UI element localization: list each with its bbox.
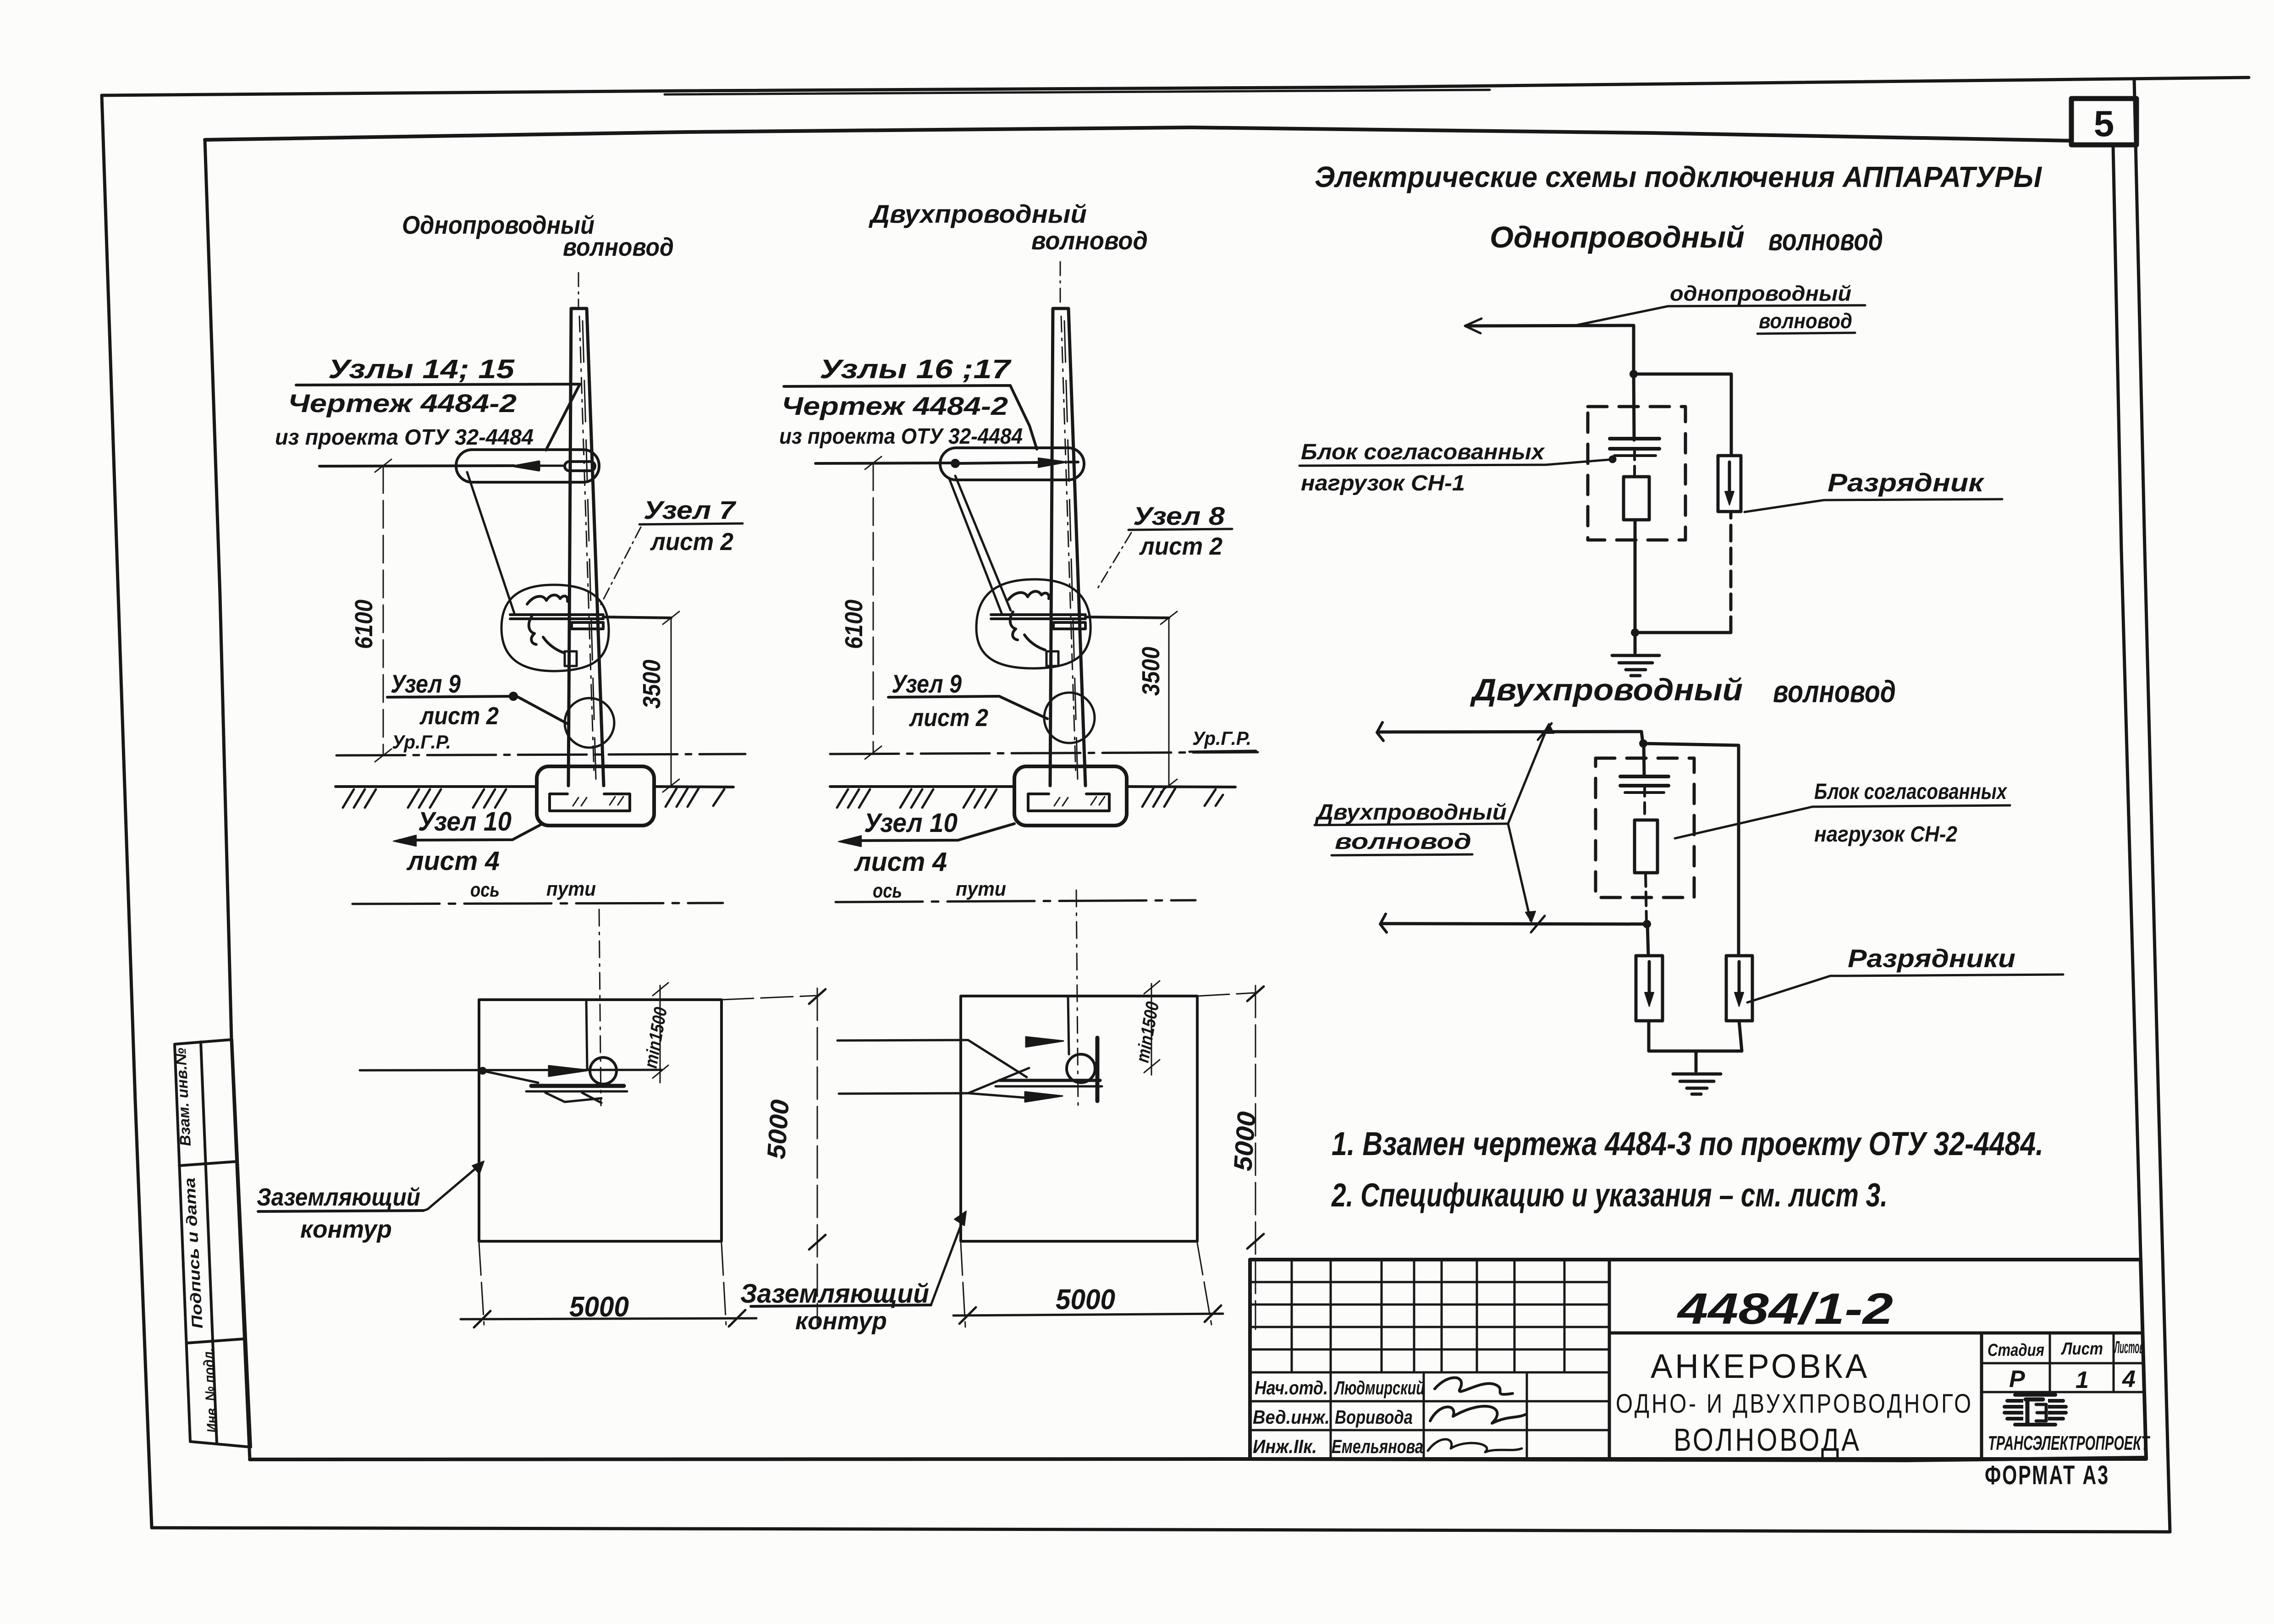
stage header row lines bbox=[1982, 1333, 2144, 1392]
ground hatching right bbox=[837, 788, 1223, 808]
svg-text:нагрузок СН-1: нагрузок СН-1 bbox=[1301, 471, 1465, 495]
svg-text:лист 2: лист 2 bbox=[650, 528, 733, 556]
sheet number box bbox=[2071, 99, 2136, 145]
svg-text:2. Спецификацию и указания – с: 2. Спецификацию и указания – см. лист 3. bbox=[1331, 1177, 1888, 1214]
grounding contour square left bbox=[479, 1000, 721, 1241]
lead to capacitor schem1 bbox=[1634, 374, 1634, 440]
node 10 label bbox=[406, 807, 512, 876]
arrester FV2 bbox=[1636, 956, 1663, 1021]
grounding contour label underline right bbox=[751, 1305, 931, 1306]
svg-text:5000: 5000 bbox=[569, 1291, 629, 1323]
anchor wire W2 bbox=[815, 463, 954, 463]
node label Uzly 14 15 bbox=[275, 354, 534, 450]
wire top end hook bbox=[1377, 722, 1383, 741]
dimension 6100 line right bbox=[865, 457, 881, 759]
node junction top schem1 bbox=[1630, 370, 1638, 378]
heading dvukhprovodny volnovod schem2 bbox=[1470, 672, 1896, 709]
title block main divider bbox=[1608, 1260, 1611, 1459]
label wire V leader bbox=[1508, 723, 1554, 922]
svg-text:Разрядник: Разрядник bbox=[1828, 468, 1985, 497]
label wire underline schem2 bbox=[1315, 824, 1508, 855]
svg-text:ТРАНСЭЛЕКТРОПРОЕКТ: ТРАНСЭЛЕКТРОПРОЕКТ bbox=[1988, 1432, 2150, 1454]
label razryadniki bbox=[1848, 944, 2015, 973]
svg-text:Чертеж 4484-2: Чертеж 4484-2 bbox=[782, 391, 1008, 420]
lead to capacitor schem2 bbox=[1644, 743, 1644, 776]
svg-text:3500: 3500 bbox=[1137, 647, 1165, 696]
svg-text:Блок согласованных: Блок согласованных bbox=[1814, 780, 2008, 804]
node junction bottom schem1 bbox=[1631, 628, 1639, 637]
svg-text:Стадия: Стадия bbox=[1988, 1341, 2044, 1360]
right elevation title Dvukhprovodny volnovod bbox=[869, 199, 1148, 255]
signature grid verticals bbox=[1292, 1260, 1564, 1459]
svg-text:волновод: волновод bbox=[563, 232, 674, 261]
top bus schem2 bbox=[1643, 743, 1739, 956]
left elevation title Odnoprovodny volnovod bbox=[402, 210, 674, 261]
svg-text:5000: 5000 bbox=[1056, 1284, 1115, 1316]
svg-text:Электрические схемы подключе: Электрические схемы подключения АППАРАТУ… bbox=[1315, 160, 2043, 193]
stay wire S1 bbox=[467, 472, 514, 613]
signature row ved inzh bbox=[1253, 1406, 1413, 1428]
anchor oval assembly bbox=[456, 450, 599, 482]
dimension 5000 vertical left ticks bbox=[809, 989, 826, 1250]
node 9 circle bbox=[565, 698, 614, 748]
level label underline right bbox=[1189, 751, 1256, 752]
signature squiggle 3 bbox=[1428, 1439, 1522, 1452]
svg-text:Ур.Г.Р.: Ур.Г.Р. bbox=[1192, 727, 1251, 749]
min1500 text right bbox=[1133, 1000, 1163, 1064]
node junction bottom schem2 bbox=[1643, 920, 1651, 928]
svg-text:ВОЛНОВОДА: ВОЛНОВОДА bbox=[1674, 1422, 1861, 1458]
signature squiggle 2 bbox=[1430, 1406, 1526, 1423]
svg-text:Людмирский: Людмирский bbox=[1334, 1377, 1425, 1398]
svg-text:волновод: волновод bbox=[1759, 309, 1852, 333]
foundation inner box bbox=[550, 794, 630, 811]
signature grid horizontals bbox=[1250, 1282, 1609, 1430]
dimension 5000 bottom text right bbox=[1056, 1284, 1115, 1316]
label razryadnik underline bbox=[1824, 499, 2002, 500]
document number 4484/1-2 bbox=[1677, 1284, 1893, 1333]
sheet outer border bottom edge bbox=[152, 1528, 2170, 1532]
square dimension extensions left bbox=[479, 988, 817, 1326]
ground hatching left bbox=[343, 788, 724, 808]
svg-text:5000: 5000 bbox=[761, 1099, 794, 1160]
stamp label Podpis i data bbox=[181, 1177, 206, 1329]
svg-text:Лист: Лист bbox=[2060, 1339, 2103, 1359]
drawing frame right edge bbox=[2113, 146, 2146, 1458]
svg-text:лист 2: лист 2 bbox=[419, 702, 499, 730]
anchor rod arrow bbox=[514, 462, 565, 470]
node label underline and flag line bbox=[296, 384, 580, 450]
capacitor C2 bbox=[1620, 776, 1668, 793]
pole circle plan left bbox=[590, 1057, 617, 1084]
label block CH-1 underline bbox=[1299, 465, 1546, 466]
lead to arrester1 bbox=[1647, 924, 1648, 956]
label block CH-2 leader bbox=[1675, 807, 1812, 838]
svg-text:Двухпроводный: Двухпроводный bbox=[1470, 672, 1743, 707]
svg-text:1. Взамен чертежа 4484-3 по п: 1. Взамен чертежа 4484-3 по проекту ОТУ … bbox=[1332, 1126, 2043, 1162]
signature row inzh IIk bbox=[1253, 1436, 1423, 1457]
wire bottom end hook bbox=[1380, 914, 1387, 932]
stage header labels bbox=[1988, 1338, 2144, 1360]
ground line right bbox=[830, 787, 1235, 787]
capacitor C1 bbox=[1610, 439, 1659, 456]
node 8 label bbox=[1133, 501, 1225, 560]
crossarm right mast bbox=[991, 615, 1169, 619]
node 7 leader bbox=[600, 527, 641, 605]
signature row nach otd bbox=[1255, 1377, 1425, 1398]
matched load block CH-1 dashed box bbox=[1588, 407, 1685, 540]
svg-text:Узел 8: Узел 8 bbox=[1133, 501, 1225, 530]
svg-text:Однопроводный: Однопроводный bbox=[1490, 220, 1745, 254]
label block CH-1 bbox=[1301, 440, 1545, 495]
dimension 6100 text bbox=[350, 600, 378, 649]
organization logo bbox=[2004, 1395, 2066, 1425]
label dvukhprovodny volnovod wire bbox=[1315, 800, 1507, 854]
svg-text:нагрузок СН-2: нагрузок СН-2 bbox=[1814, 822, 1957, 847]
stamp label Inv no podl bbox=[199, 1348, 221, 1433]
svg-text:Двухпроводный: Двухпроводный bbox=[1315, 800, 1507, 825]
node junction top schem2 bbox=[1639, 739, 1647, 748]
note 1 bbox=[1332, 1126, 2043, 1162]
node 9 circle right bbox=[1044, 693, 1095, 743]
matched load block CH-2 dashed box bbox=[1596, 758, 1694, 897]
anchor arrow plan left bbox=[549, 1066, 589, 1076]
foundation F1 bbox=[537, 766, 654, 826]
mast M2 centerline bbox=[1060, 262, 1076, 775]
svg-text:лист 4: лист 4 bbox=[406, 846, 500, 876]
dimension 5000 bottom line left bbox=[461, 1310, 756, 1327]
sheet outer border right edge bbox=[2134, 79, 2170, 1532]
svg-text:волновод: волновод bbox=[1768, 223, 1883, 257]
wire end arrow schem1 bbox=[1465, 319, 1481, 333]
heading odnoprovodny volnovod schem1 bbox=[1490, 220, 1883, 257]
node 9 leader bbox=[517, 696, 568, 724]
format A3 note bbox=[1985, 1460, 2109, 1490]
mast M2 body bbox=[1050, 308, 1085, 786]
arrester FV3 bbox=[1726, 956, 1752, 1021]
drawing frame left edge bbox=[205, 140, 250, 1459]
line under document number bbox=[1609, 1332, 2142, 1335]
bottom bus schem2 bbox=[1649, 1021, 1742, 1051]
svg-text:6100: 6100 bbox=[840, 600, 868, 649]
svg-text:Узел 10: Узел 10 bbox=[864, 808, 958, 838]
pole centerline plan left bbox=[599, 909, 601, 1106]
node 9 label right bbox=[892, 669, 988, 732]
node 9 label underline right bbox=[888, 696, 999, 697]
arrester FV1 bbox=[1718, 456, 1741, 512]
dimension 3500 line bbox=[663, 611, 679, 792]
crossarm bracket bbox=[572, 622, 603, 629]
dimension 5000 vertical text right bbox=[1228, 1111, 1261, 1172]
foundation F2 bbox=[1014, 766, 1127, 826]
anchor rod with right arrow bbox=[952, 458, 1078, 468]
svg-text:5000: 5000 bbox=[1228, 1111, 1261, 1172]
svg-text:однопроводный: однопроводный bbox=[1670, 281, 1851, 305]
note 2 bbox=[1331, 1177, 1888, 1214]
node 7 label underline bbox=[639, 523, 743, 524]
svg-text:контур: контур bbox=[795, 1307, 887, 1335]
svg-text:Разрядники: Разрядники bbox=[1848, 944, 2015, 973]
dimension 5000 bottom text left bbox=[569, 1291, 629, 1323]
square dimension extensions right bbox=[961, 985, 1255, 1329]
waveguide wire schem1 bbox=[1466, 325, 1634, 374]
plan diagonals right bbox=[968, 1040, 1029, 1098]
grounding contour square right bbox=[961, 996, 1197, 1241]
dimension 3500 line right bbox=[1161, 611, 1177, 792]
stamp label Vzam inv no bbox=[172, 1047, 194, 1147]
waveguide wire bottom schem2 bbox=[1382, 924, 1647, 924]
svg-text:из проекта ОТУ 32-4484: из проекта ОТУ 32-4484 bbox=[779, 424, 1023, 449]
svg-text:пути: пути bbox=[956, 878, 1006, 900]
grounding contour label underline left bbox=[258, 1211, 424, 1211]
ground line left bbox=[336, 787, 733, 787]
track axis line left bbox=[352, 903, 723, 904]
drawing frame bottom edge bbox=[250, 1458, 2146, 1460]
pole circle plan right bbox=[1067, 1054, 1095, 1083]
label razryadniki underline bbox=[1845, 974, 2063, 976]
svg-text:Узлы 14; 15: Узлы 14; 15 bbox=[328, 354, 515, 384]
svg-text:лист 2: лист 2 bbox=[1139, 533, 1222, 560]
ground symbol schem2 bbox=[1673, 1051, 1721, 1094]
label razryadniki leader bbox=[1747, 976, 1845, 1002]
label razryadnik bbox=[1828, 468, 1985, 497]
svg-text:ось: ось bbox=[873, 880, 902, 902]
svg-text:6100: 6100 bbox=[350, 600, 378, 649]
top bus schem1 bbox=[1634, 374, 1731, 457]
track axis line right bbox=[836, 900, 1195, 902]
capacitor to resistor lead bbox=[1633, 449, 1636, 477]
min1500 dimension left bbox=[653, 983, 668, 1083]
node 9 leader right bbox=[999, 696, 1047, 719]
svg-text:3500: 3500 bbox=[638, 660, 666, 709]
crossarm bars plan left bbox=[531, 1084, 624, 1088]
svg-text:Узел 7: Узел 7 bbox=[644, 495, 737, 524]
crossarm bar vertical plan right bbox=[1096, 1038, 1100, 1101]
mast mount rect bbox=[565, 651, 577, 666]
grounding contour label right bbox=[740, 1279, 929, 1335]
heading electrical schemes bbox=[1315, 160, 2043, 193]
pole centerline plan right bbox=[1076, 890, 1078, 1106]
ground symbol schem1 bbox=[1612, 633, 1659, 676]
svg-text:Узел 9: Узел 9 bbox=[892, 669, 962, 698]
svg-text:пути: пути bbox=[546, 878, 596, 900]
foundation hatch marks right bbox=[1054, 797, 1105, 806]
resistor R2 bbox=[1635, 820, 1657, 873]
dimension 6100 text right bbox=[840, 600, 868, 649]
signature squiggle 1 bbox=[1435, 1378, 1513, 1394]
svg-text:Р: Р bbox=[2009, 1366, 2025, 1393]
dimension 5000 bottom line right bbox=[953, 1305, 1223, 1324]
svg-text:Нач.отд.: Нач.отд. bbox=[1255, 1377, 1328, 1398]
svg-text:5: 5 bbox=[2094, 103, 2114, 144]
track axis label left bbox=[470, 878, 596, 901]
foundation hatch marks bbox=[573, 797, 623, 806]
svg-text:АНКЕРОВКА: АНКЕРОВКА bbox=[1651, 1347, 1870, 1385]
drawing frame top edge bbox=[205, 127, 2071, 141]
mast M1 centerline bbox=[578, 273, 594, 775]
svg-text:волновод: волновод bbox=[1773, 674, 1896, 709]
capacitor to resistor lead schem2 bbox=[1643, 785, 1646, 820]
organization name bbox=[1988, 1432, 2150, 1454]
resistor bottom lead schem2 bbox=[1646, 873, 1646, 924]
anchor oval assembly right bbox=[940, 448, 1084, 480]
svg-text:4484/1-2: 4484/1-2 bbox=[1677, 1284, 1893, 1333]
svg-text:лист 4: лист 4 bbox=[853, 847, 947, 877]
svg-text:Узлы 16 ;17: Узлы 16 ;17 bbox=[820, 354, 1012, 384]
svg-text:лист 2: лист 2 bbox=[908, 704, 988, 732]
wire label leader bbox=[1577, 306, 1668, 325]
plan arrows right bbox=[1025, 1037, 1063, 1102]
min1500 text left bbox=[641, 1006, 672, 1070]
label block CH-1 leader bbox=[1546, 457, 1615, 465]
svg-text:Узел 9: Узел 9 bbox=[391, 669, 461, 698]
node 8 fitting scribbles bbox=[1008, 591, 1049, 650]
dimension 3500 text bbox=[638, 660, 666, 709]
level line dash-dot left bbox=[336, 754, 745, 755]
level label Ur G R right bbox=[1192, 727, 1251, 749]
track axis label right bbox=[873, 878, 1006, 902]
waveguide wire top schem2 bbox=[1379, 732, 1643, 743]
node 8 label underline bbox=[1129, 529, 1232, 530]
node 7 blob outline bbox=[501, 585, 609, 671]
left margin stamp table bbox=[175, 1040, 251, 1447]
crossarm left mast bbox=[510, 615, 671, 619]
svg-text:контур: контур bbox=[300, 1216, 392, 1243]
svg-text:4: 4 bbox=[2122, 1366, 2136, 1393]
label razryadnik leader bbox=[1745, 500, 1824, 512]
svg-text:ФОРМАТ А3: ФОРМАТ А3 bbox=[1985, 1460, 2109, 1490]
level line dash-dot right bbox=[830, 752, 1258, 754]
svg-text:Заземляющий: Заземляющий bbox=[257, 1184, 420, 1211]
anchor turnbuckle bbox=[565, 462, 595, 471]
plan braces left bbox=[480, 1068, 601, 1103]
svg-text:Узел 10: Узел 10 bbox=[418, 807, 512, 837]
svg-text:Инж.IIк.: Инж.IIк. bbox=[1253, 1436, 1317, 1457]
anchor rod vertical plan right bbox=[1068, 996, 1069, 1054]
label block CH-2 bbox=[1814, 780, 2008, 847]
anchor wire W1 bbox=[319, 466, 514, 466]
title text ankerovka bbox=[1616, 1347, 1973, 1458]
node 8 blob outline bbox=[976, 579, 1090, 668]
svg-text:волновод: волновод bbox=[1031, 226, 1148, 255]
dimension 5000 vertical right ticks bbox=[1247, 986, 1264, 1249]
node label Uzly 16 17 bbox=[779, 354, 1023, 449]
sheet outer border left edge bbox=[102, 95, 152, 1528]
anchor wire plan left bbox=[360, 1070, 661, 1070]
sheet number 5 bbox=[2094, 103, 2114, 144]
dimension 3500 text right bbox=[1137, 647, 1165, 696]
anchor wires plan right bbox=[837, 1040, 968, 1094]
svg-text:Воривода: Воривода bbox=[1335, 1406, 1413, 1428]
grounding contour leader left bbox=[424, 1161, 484, 1211]
svg-text:Блок согласованных: Блок согласованных bbox=[1301, 440, 1545, 464]
svg-text:ОДНО- И ДВУХПРОВОДНОГО: ОДНО- И ДВУХПРОВОДНОГО bbox=[1616, 1389, 1973, 1419]
node 7 label bbox=[644, 495, 737, 556]
label block CH-2 underline bbox=[1812, 805, 2010, 807]
node label underline and flag line bbox=[784, 385, 1037, 449]
crossarm bars horizontal plan right bbox=[1000, 1079, 1100, 1082]
svg-text:1: 1 bbox=[2076, 1367, 2089, 1393]
svg-text:Листов: Листов bbox=[2114, 1338, 2144, 1357]
resistor bottom lead schem1 bbox=[1634, 520, 1637, 633]
node 10 label right bbox=[853, 808, 958, 877]
stay wires S2 double bbox=[949, 476, 1011, 614]
svg-text:Емельянова: Емельянова bbox=[1332, 1436, 1423, 1457]
node 10 leader with arrow right bbox=[838, 824, 1014, 847]
foundation inner box right bbox=[1028, 794, 1109, 811]
wire bottom break tick bbox=[1531, 916, 1545, 932]
resistor R1 bbox=[1624, 477, 1649, 520]
node 9 label underline bbox=[387, 693, 517, 699]
title block outer rect bbox=[1250, 1260, 2146, 1459]
svg-text:из проекта ОТУ 32-4484: из проекта ОТУ 32-4484 bbox=[275, 425, 534, 450]
svg-text:Ур.Г.Р.: Ур.Г.Р. bbox=[392, 731, 451, 753]
wire top break tick bbox=[1538, 723, 1552, 740]
bottom bus schem1 bbox=[1635, 512, 1731, 633]
wire label underlines bbox=[1668, 305, 1865, 334]
grounding contour leader right bbox=[931, 1211, 966, 1305]
svg-text:Чертеж 4484-2: Чертеж 4484-2 bbox=[288, 389, 517, 418]
dimension 5000 vertical text left bbox=[761, 1099, 794, 1160]
node 7 fitting scribbles bbox=[527, 595, 567, 653]
min1500 dimension right bbox=[1144, 981, 1160, 1075]
stage values bbox=[2009, 1366, 2136, 1393]
mast M1 body bbox=[568, 308, 604, 786]
node 10 leader with arrow bbox=[393, 825, 541, 846]
dimension 6100 line bbox=[375, 459, 391, 762]
mast mount rect right bbox=[1046, 651, 1058, 666]
crossarm bracket right bbox=[1053, 622, 1085, 629]
svg-text:Двухпроводный: Двухпроводный bbox=[869, 199, 1087, 228]
node 8 leader bbox=[1096, 533, 1131, 590]
anchor rod vertical plan left bbox=[586, 1000, 587, 1069]
svg-text:Вед.инж.: Вед.инж. bbox=[1253, 1406, 1330, 1428]
sheet outer border top edge bbox=[102, 77, 2249, 95]
svg-text:ось: ось bbox=[470, 879, 500, 901]
svg-text:волновод: волновод bbox=[1335, 830, 1471, 854]
node 9 label bbox=[391, 669, 499, 730]
label odnoprovodny volnovod wire bbox=[1670, 281, 1852, 333]
grounding contour label left bbox=[257, 1184, 420, 1243]
stage columns divider bbox=[1980, 1333, 1983, 1459]
level label Ur G R bbox=[392, 731, 451, 753]
